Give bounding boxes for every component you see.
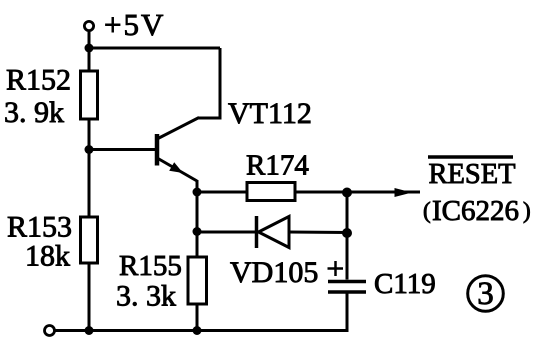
svg-text:3: 3 xyxy=(477,276,494,312)
svg-text:R152: R152 xyxy=(6,64,71,97)
svg-text:3. 3k: 3. 3k xyxy=(116,280,176,313)
svg-text:(: ( xyxy=(423,198,431,223)
svg-text:RESET: RESET xyxy=(429,159,516,190)
svg-text:C119: C119 xyxy=(374,268,436,300)
svg-text:R174: R174 xyxy=(246,150,309,182)
svg-text:VD105: VD105 xyxy=(230,256,318,289)
svg-text:IC6226: IC6226 xyxy=(432,195,519,227)
svg-text:18k: 18k xyxy=(25,240,70,273)
svg-text:+5V: +5V xyxy=(104,7,165,42)
svg-text:3. 9k: 3. 9k xyxy=(4,96,64,129)
svg-text:R155: R155 xyxy=(119,250,182,282)
svg-text:): ) xyxy=(523,198,531,223)
svg-text:VT112: VT112 xyxy=(228,97,312,130)
